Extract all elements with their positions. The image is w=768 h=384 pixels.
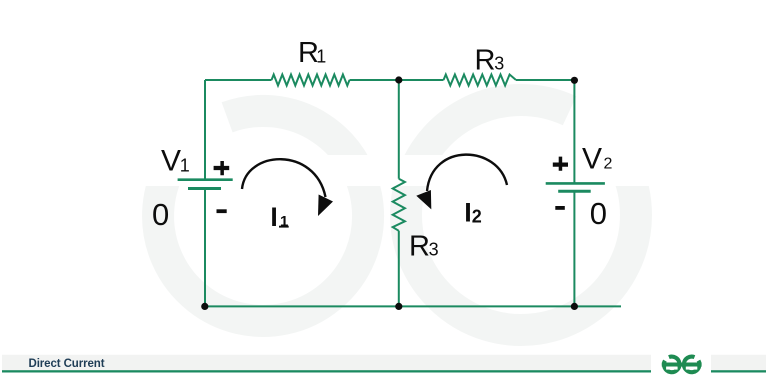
wire top (node A to node B) bbox=[205, 79, 272, 81]
svg-text:1: 1 bbox=[180, 156, 190, 176]
current loop arrow I2 bbox=[427, 155, 507, 191]
wire middle vertical lower bbox=[398, 231, 400, 307]
resistor R3 middle bbox=[393, 179, 405, 231]
svg-text:V: V bbox=[161, 145, 181, 178]
svg-text:V: V bbox=[582, 143, 602, 176]
wire right vertical upper bbox=[573, 80, 575, 183]
label minus V2 bbox=[555, 206, 565, 210]
svg-text:3: 3 bbox=[429, 240, 439, 260]
wire right vertical lower bbox=[573, 191, 575, 306]
node D (bottom left junction) bbox=[201, 303, 208, 310]
svg-text:1: 1 bbox=[316, 46, 326, 66]
logo GeeksforGeeks bbox=[664, 357, 700, 373]
wire (node B to R3 top) bbox=[399, 79, 444, 81]
svg-text:2: 2 bbox=[472, 207, 482, 227]
battery V2 plate short bbox=[558, 190, 591, 193]
svg-text:0: 0 bbox=[152, 197, 169, 232]
svg-text:I: I bbox=[270, 202, 277, 232]
watermark left ring bbox=[158, 111, 368, 321]
node B (top middle junction) bbox=[395, 76, 402, 83]
wire middle vertical upper bbox=[398, 80, 400, 179]
label plus V2 bbox=[553, 157, 568, 171]
footer green line left bbox=[2, 370, 651, 372]
node E (bottom middle junction) bbox=[395, 303, 402, 310]
wire (R3 top to node C) bbox=[516, 79, 574, 81]
wire left vertical upper bbox=[204, 80, 206, 180]
footer green line right bbox=[711, 370, 766, 372]
wire (R1 to node B) bbox=[350, 79, 399, 81]
battery V2 plate long bbox=[546, 182, 605, 185]
footer band left bbox=[2, 355, 651, 370]
watermark white band bbox=[0, 155, 768, 186]
label minus V1 bbox=[217, 209, 227, 213]
node F (bottom right junction) bbox=[571, 303, 578, 310]
resistor R3 top bbox=[444, 75, 517, 86]
wire bottom bbox=[205, 305, 621, 307]
svg-text:2: 2 bbox=[604, 156, 613, 173]
battery V1 plate long bbox=[178, 178, 233, 181]
label plus V1 bbox=[214, 161, 230, 175]
footer band right bbox=[711, 355, 766, 370]
battery V1 plate short bbox=[188, 187, 221, 190]
svg-text:I: I bbox=[464, 197, 472, 227]
svg-text:R: R bbox=[475, 44, 496, 76]
svg-text:R: R bbox=[409, 230, 430, 262]
svg-text:3: 3 bbox=[494, 54, 504, 74]
resistor R1 bbox=[272, 75, 350, 86]
watermark right ring bbox=[406, 100, 636, 330]
svg-text:0: 0 bbox=[590, 196, 607, 231]
wire left vertical lower bbox=[204, 189, 206, 307]
svg-text:Direct Current: Direct Current bbox=[29, 358, 105, 370]
current loop arrow I1 bbox=[242, 159, 326, 197]
node C (top right junction) bbox=[571, 77, 578, 84]
